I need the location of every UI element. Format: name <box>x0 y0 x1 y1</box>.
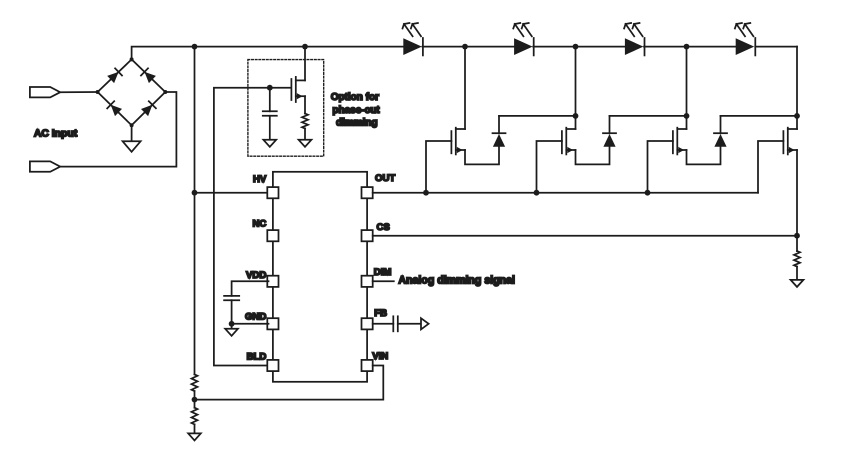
node stage 2 drain x diode <box>573 113 579 119</box>
AC input terminal (line) <box>30 87 60 97</box>
dotted box: phase-cut dimming option <box>248 60 324 157</box>
capacitor (VDD decoupling) <box>224 296 239 324</box>
wire bridge - output to ground <box>131 125 133 141</box>
svg-text:HV: HV <box>253 174 267 185</box>
node top rail x stage 3 drain <box>684 44 690 50</box>
svg-text:BLD: BLD <box>247 352 267 363</box>
node top rail x HV riser <box>192 44 198 50</box>
node GND x capacitor <box>229 321 235 327</box>
wire stage 3 diode cathode to stage 4 drain <box>721 115 798 117</box>
IC pin VDD <box>267 276 278 287</box>
bridge diode (bottom-left) <box>107 101 122 116</box>
svg-text:Option for: Option for <box>331 92 379 103</box>
IC pin FB <box>362 318 373 329</box>
IC pin NC <box>267 230 278 241</box>
wire AC line to bridge left vertex <box>60 91 97 93</box>
ground below divider <box>188 433 201 440</box>
ground signal ground at GND pin <box>225 329 238 336</box>
wire VDD pin to capacitor <box>232 281 269 296</box>
AC input terminal (neutral) <box>30 161 60 171</box>
resistor divider lower <box>192 408 198 425</box>
IC pin DIM <box>362 276 373 287</box>
wire phase-cut resistor to ground <box>304 129 306 140</box>
svg-text:GND: GND <box>245 312 266 323</box>
node OUT rail x stage 3 gate <box>645 190 651 196</box>
MOSFET bypass stage 3 <box>673 128 687 155</box>
wire CS line <box>373 235 797 237</box>
svg-text:OUT: OUT <box>375 173 395 184</box>
resistor current sense <box>794 251 800 267</box>
label: Option for phase-cut dimming <box>331 92 381 128</box>
node bridge right vertex <box>163 90 167 94</box>
node CS x stage 4 source x sense resistor <box>794 233 800 239</box>
svg-text:NC: NC <box>252 219 266 230</box>
node stage 3 drain x diode <box>684 113 690 119</box>
wire stage 2 drain riser <box>575 47 577 129</box>
wire stage 3 source to diode anode <box>687 147 721 165</box>
bridge rectifier diamond <box>98 59 166 125</box>
diode (stage 1 bypass) <box>493 116 506 147</box>
wire DIM pin stub <box>373 280 394 282</box>
wire stage 2 diode cathode to stage 3 drain <box>610 115 687 117</box>
wire OUT rail <box>373 192 758 194</box>
wire LED3 cathode to LED4 anode <box>644 46 736 48</box>
capacitor (phase-cut RC) <box>263 88 277 140</box>
wire LED1 cathode to LED2 anode <box>422 46 514 48</box>
IC pin OUT <box>362 187 373 198</box>
diode (stage 3 bypass) <box>714 116 727 147</box>
resistor phase-cut source <box>302 114 308 129</box>
wire phase-cut drain to top rail <box>304 47 306 81</box>
node bridge top vertex <box>130 57 134 61</box>
node phase-cut gate x capacitor <box>267 85 273 91</box>
wire GND pin to capacitor bottom <box>232 323 269 325</box>
LED D2 light-emission arrows <box>513 23 532 36</box>
wire stage 1 diode cathode to stage 2 drain <box>499 115 576 117</box>
bridge diode (top-right) <box>141 68 156 83</box>
wire AC neutral to bridge right vertex <box>60 92 176 167</box>
wire stage 1 gate to OUT rail <box>426 141 451 193</box>
node divider tap <box>192 397 198 403</box>
wire stage 4 drain riser <box>796 47 798 129</box>
ground below bridge <box>123 141 141 152</box>
wire stage 3 drain riser <box>686 47 688 129</box>
wire bridge + output to top rail / LED1 anode <box>132 47 404 60</box>
wire stage 1 source to diode anode <box>465 147 499 165</box>
svg-text:AC Input: AC Input <box>34 128 78 139</box>
svg-text:Analog dimming signal: Analog dimming signal <box>398 275 515 287</box>
svg-text:CS: CS <box>377 222 391 233</box>
svg-text:VIN: VIN <box>372 351 388 362</box>
node top rail x stage 1 drain <box>462 44 468 50</box>
diode (stage 2 bypass) <box>603 116 616 147</box>
wire stage 2 gate to OUT rail <box>537 141 562 193</box>
wire sense resistor to ground <box>796 267 798 280</box>
MOSFET bypass stage 4 <box>783 128 797 155</box>
bridge diode (bottom-right) <box>141 101 156 116</box>
capacitor (FB) <box>393 316 398 331</box>
wire stage 3 gate to OUT rail <box>648 141 673 193</box>
IC pin VIN <box>362 360 373 371</box>
node OUT rail x stage 1 gate <box>423 190 429 196</box>
wire stage 4 source to CS <box>796 150 798 236</box>
MOSFET bypass stage 1 <box>451 128 465 155</box>
FB signal connector arrow <box>421 318 429 329</box>
node top rail x stage 2 drain <box>573 44 579 50</box>
node HV junction <box>192 190 198 196</box>
wire LED2 cathode to LED3 anode <box>533 46 625 48</box>
wire FB pin to capacitor <box>373 323 394 325</box>
wire divider middle <box>194 391 196 408</box>
node top rail x phase-cut drain <box>302 44 308 50</box>
LED D3 light-emission arrows <box>624 23 643 36</box>
LED D2 <box>514 38 534 55</box>
svg-text:VDD: VDD <box>246 270 266 281</box>
wire stage 2 source to diode anode <box>576 147 610 165</box>
wire HV riser from top rail <box>194 47 196 375</box>
MOSFET bypass stage 2 <box>562 128 576 155</box>
LED D1 light-emission arrows <box>403 23 422 36</box>
wire FB capacitor to connector <box>398 323 421 325</box>
wire phase-cut source to resistor <box>304 96 306 113</box>
LED D1 <box>403 38 423 55</box>
node OUT rail x stage 2 gate <box>534 190 540 196</box>
resistor divider upper <box>192 374 198 391</box>
LED D4 light-emission arrows <box>735 23 754 36</box>
svg-text:FB: FB <box>374 308 387 319</box>
wire BLD pin to phase-cut gate <box>214 88 290 366</box>
IC pin HV <box>267 187 278 198</box>
ground below phase-cut resistor <box>299 140 312 147</box>
bridge diode (top-left) <box>107 68 122 83</box>
wire divider lower to ground <box>194 424 196 433</box>
svg-text:dimming: dimming <box>336 117 378 128</box>
wire CS node to sense resistor <box>796 236 798 251</box>
node stage 4 drain x diode <box>794 113 800 119</box>
LED D3 <box>625 38 645 55</box>
node bridge left vertex <box>96 90 100 94</box>
wire stub to ground symbol <box>231 324 233 329</box>
ground below phase-cut capacitor <box>263 140 276 147</box>
wire stage 4 gate to OUT rail <box>758 141 783 193</box>
LED D4 <box>736 38 756 55</box>
wire HV riser to HV pin <box>195 192 269 194</box>
IC pin CS <box>362 230 373 241</box>
IC body (LED driver controller) <box>273 172 367 382</box>
svg-text:DIM: DIM <box>374 267 392 278</box>
wire stage 1 drain riser <box>464 47 466 129</box>
wire VIN pin to divider tap <box>195 366 384 400</box>
node bridge bottom vertex <box>130 123 134 127</box>
wire LED4 cathode to right drop <box>755 46 797 48</box>
IC pin BLD <box>267 360 278 371</box>
ground below sense resistor <box>791 280 804 287</box>
MOSFET phase-cut dimming <box>291 77 305 102</box>
svg-text:phase-cut: phase-cut <box>332 105 380 116</box>
IC pin GND <box>267 318 278 329</box>
